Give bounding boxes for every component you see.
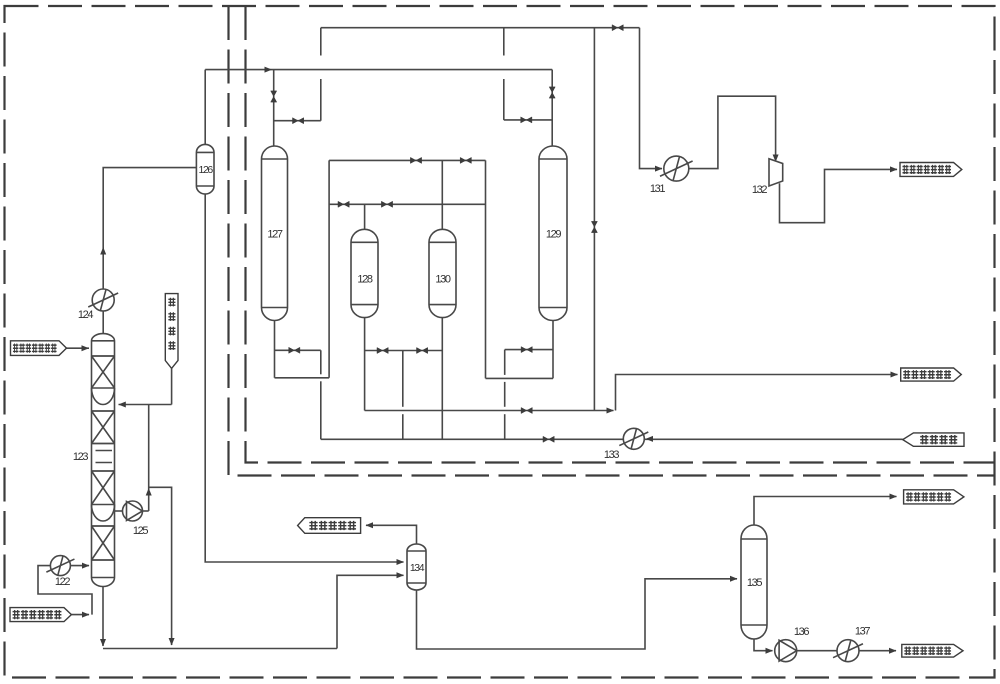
pipe: drum 134 overhead	[366, 525, 417, 544]
valve lower header left	[338, 201, 349, 207]
valve on regeneration header	[612, 25, 623, 31]
svg-text:132: 132	[752, 184, 767, 196]
adsorber 127	[262, 146, 288, 320]
fresh caustic box	[165, 294, 178, 369]
svg-text:125: 125	[133, 525, 148, 537]
pipe: column 123 overhead to cooler 124	[102, 311, 104, 334]
inlet flag: recycle ethylene	[903, 433, 964, 446]
pipe: header box right side	[485, 160, 487, 378]
valve on 129 bottom branch	[521, 347, 532, 353]
arrow into to-quench-tower flag	[366, 522, 374, 528]
adsorber 130	[429, 229, 456, 317]
flow arrow into heater 133	[646, 436, 654, 442]
adsorber 128	[351, 229, 378, 317]
svg-text:127: 127	[267, 228, 282, 240]
pipe: 127 regeneration branch	[274, 120, 321, 122]
column 123 dome tray 2	[92, 505, 115, 522]
pipe: bottom cross line 128-130	[365, 350, 443, 352]
pipe: bottoms riser to drum 134	[337, 575, 404, 648]
pipe: adsorber 127 inlet riser	[273, 70, 275, 147]
svg-text:131: 131	[650, 183, 665, 195]
arrow into column 123 return	[118, 402, 126, 408]
inner dashed boundary (outer L: quench section)	[229, 6, 995, 476]
arrow into purification riser	[607, 408, 615, 414]
inner dashed boundary (inner L: adsorption section)	[246, 6, 995, 463]
pipe: 130 bottom drop	[441, 318, 443, 440]
pipe: 129 regen riser upper part (crosses main line)	[503, 28, 505, 56]
drum 126	[196, 144, 214, 194]
arrow down to bottoms line	[169, 638, 175, 646]
pipe: exchanger 137 to waste liquid flag	[859, 650, 896, 652]
svg-text:130: 130	[435, 273, 450, 285]
pipe: adsorber 129 inlet riser	[551, 70, 553, 148]
pipe: upper cross header	[329, 159, 485, 161]
arrow into vent-gas flag	[890, 166, 898, 172]
pipe: pump 125 suction	[115, 510, 123, 512]
column 123 packing X 2	[92, 411, 115, 444]
pump 125	[123, 501, 143, 521]
valve upper header right	[460, 157, 471, 163]
column 123 tray lines	[96, 451, 113, 463]
pipe: header tee down to purification junction	[593, 28, 595, 411]
outlet flag: waste liquid to OSBL	[902, 644, 963, 657]
pipe: drum 126 liquid downcomer	[205, 194, 403, 562]
arrow into pump 136	[766, 648, 774, 654]
svg-text:122: 122	[55, 576, 70, 588]
pipe: drum 126 overhead riser	[204, 70, 206, 145]
pipe: 127 branch drop upper	[320, 350, 322, 374]
pipe: 128 bottom drop	[364, 318, 366, 411]
pipe: lower cross header	[329, 203, 485, 205]
pipe: 129 bottom to header box	[486, 377, 554, 379]
column 123 internals: section lines	[92, 341, 115, 578]
arrow down on bottoms drop	[100, 639, 106, 647]
pipe: compressor 132 discharge	[780, 169, 898, 222]
arrow into purification flag	[891, 372, 899, 378]
svg-text:137: 137	[855, 626, 870, 638]
pipe: 129 bottom drop	[552, 321, 554, 379]
column 123 packing X 1	[92, 356, 115, 388]
pipe: 129 bottom branch with valve	[505, 349, 553, 351]
pipe: 127 bottom to header box	[275, 377, 330, 379]
svg-text:123: 123	[73, 451, 88, 463]
svg-text:136: 136	[794, 626, 809, 638]
pipe: caustic return to column	[119, 404, 172, 406]
valve on 127 bottom branch	[289, 347, 300, 353]
pipe: 127 bottom drop	[274, 321, 276, 378]
drum 134	[407, 544, 426, 590]
svg-text:133: 133	[604, 449, 619, 461]
compressor 132	[769, 159, 783, 186]
arrow on quench feed	[82, 612, 90, 618]
valve on recycle line	[543, 436, 554, 442]
arrow into column 123 top	[82, 345, 90, 351]
outlet flag: vent gas to quench tower	[900, 163, 962, 177]
flow arrow into exchanger 131	[655, 166, 663, 172]
pipe: mid drop lower	[402, 414, 404, 439]
pipe: mid drop upper (to recycle line)	[402, 351, 404, 407]
valve bottom cross right	[417, 348, 428, 354]
cooler 137	[833, 640, 863, 662]
pipe: 127 regen riser lower part	[320, 79, 322, 121]
valve on 127 regeneration branch	[293, 118, 304, 124]
pipe: cooler 122 to column	[70, 565, 89, 567]
pipe: pump 136 to exchanger 137	[797, 650, 837, 652]
pipe: caustic drop	[171, 368, 173, 404]
svg-text:134: 134	[410, 562, 425, 574]
valve on header downcomer	[591, 221, 597, 232]
pipe: bottoms collection line	[103, 648, 337, 650]
flow arrow up to drum 126	[100, 247, 106, 255]
pipe: cooler 124 to drum 126	[103, 168, 196, 289]
valve on product line	[521, 408, 532, 414]
valve upper header left	[410, 157, 421, 163]
column 123 dome tray 1	[92, 388, 115, 405]
svg-text:128: 128	[357, 273, 372, 285]
pipe: stripper 135 overhead	[754, 497, 897, 526]
pipe: 129 regeneration branch	[504, 119, 552, 121]
inlet flag: quench compression system	[10, 608, 71, 622]
arrow into drum 134 lower	[397, 572, 405, 578]
arrow into waste-liquid flag	[889, 648, 897, 654]
flow arrow up circulation riser	[146, 488, 152, 496]
pipe: 129 branch drop b	[504, 382, 506, 407]
flow arrow into compressor 132	[773, 155, 779, 163]
pipe: column 123 bottoms drop	[102, 587, 104, 647]
pipe: 127 regen riser upper part (crosses main line)	[320, 28, 322, 56]
svg-text:129: 129	[546, 228, 561, 240]
arrow into drum 134 upper	[397, 559, 405, 565]
pipe: stripper 135 bottoms	[754, 639, 773, 651]
pipe: quench feed loop	[71, 614, 89, 616]
pipe: 127 bottom branch with valve	[275, 349, 321, 351]
pipe: feed riser to cooler 122	[38, 566, 92, 615]
pipe: main gas line to adsorbers	[205, 69, 552, 71]
pipe: drum 134 bottoms to stripper 135	[417, 579, 738, 649]
pipe: 129 branch drop a	[504, 350, 506, 375]
pipe: header corner down to exchanger 131	[640, 28, 663, 169]
pipe: purification riser and run to flag	[616, 375, 898, 411]
svg-text:124: 124	[78, 309, 93, 321]
valve bottom cross left	[377, 348, 388, 354]
cooler 124	[88, 289, 118, 311]
valve on 129 riser	[549, 87, 555, 98]
cooler 122	[46, 556, 74, 576]
arrow into stripper 135	[730, 576, 738, 582]
arrow into waste-gas flag	[890, 494, 898, 500]
svg-text:126: 126	[199, 164, 214, 176]
pipe: 129 branch drop c	[504, 414, 506, 439]
heater 133	[619, 428, 648, 449]
pipe: product line to purification riser	[365, 410, 614, 412]
valve lower header right	[381, 201, 392, 207]
arrow into column bottom section	[82, 563, 90, 569]
pipe: 127 branch drop lower	[320, 381, 322, 439]
column 123 packing X 4	[92, 526, 115, 560]
column 123 shell	[92, 334, 115, 587]
adsorber 129	[539, 146, 567, 321]
pipe: 130 top riser	[441, 160, 443, 229]
pump 136	[775, 640, 797, 662]
pipe: blowdown tee	[149, 487, 172, 645]
pipe: desalted water feed	[66, 347, 89, 349]
pipe: regeneration gas header	[321, 27, 640, 29]
outlet flag: waste gas to OSBL	[904, 490, 964, 504]
pipe: recycle ethylene line	[321, 438, 903, 440]
inlet flag: desalted water from OSBL	[11, 341, 67, 356]
outlet flag: to quench tower	[298, 518, 361, 534]
valve on 127 riser	[271, 91, 277, 102]
exchanger 131	[660, 156, 693, 181]
pipe: 128 top riser	[364, 204, 366, 229]
column 123 packing X 3	[92, 471, 115, 505]
pipe: exchanger 131 to compressor 132	[689, 96, 776, 168]
flow arrow on main gas line	[265, 67, 273, 73]
outlet flag: to ethylene purification system	[901, 368, 962, 381]
pipe: 129 regen riser lower part	[503, 79, 505, 120]
svg-text:135: 135	[747, 577, 762, 589]
pipe: circulation riser	[148, 405, 150, 512]
valve on 129 regeneration branch	[521, 117, 532, 123]
stripper 135	[741, 525, 767, 639]
pipe: header box left side	[328, 160, 330, 377]
pipe: pump 125 discharge	[143, 510, 149, 512]
